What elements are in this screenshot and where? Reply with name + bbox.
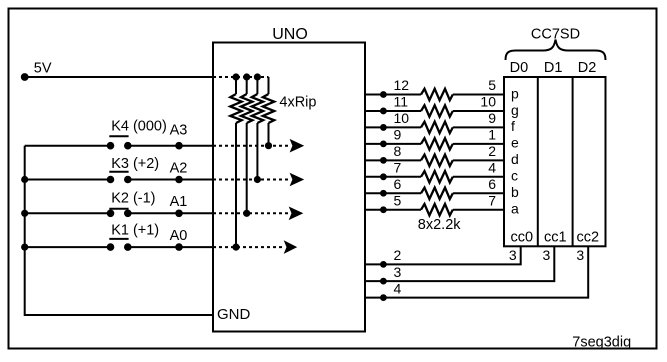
- svg-text:e: e: [511, 135, 519, 151]
- resistor R3 2.2k: [421, 122, 453, 133]
- wire UNO pin 12 to resistor R1: [365, 94, 421, 96]
- svg-text:GND: GND: [217, 306, 251, 323]
- display DS1 CC7SD block: [504, 77, 606, 246]
- wire A0 into UNO (dashed): [213, 246, 285, 248]
- svg-text:d: d: [511, 151, 519, 167]
- svg-text:D0: D0: [510, 60, 529, 76]
- node A0: [170, 228, 188, 251]
- svg-text:9: 9: [394, 127, 402, 143]
- svg-text:9: 9: [488, 110, 496, 126]
- resistor RN4 (pull-up): [263, 77, 274, 146]
- wire resistor R4 to display pin 1: [453, 143, 504, 145]
- wire UNO pin 8 to resistor R5: [365, 159, 421, 161]
- svg-text:K3 (+2): K3 (+2): [111, 156, 159, 172]
- svg-text:6: 6: [488, 176, 496, 192]
- wire switch K2 to node A1: [128, 212, 213, 214]
- resistor R2 2.2k: [421, 105, 453, 116]
- node 5V terminal: [21, 73, 29, 81]
- resistor R7 2.2k: [421, 188, 453, 199]
- svg-text:b: b: [511, 184, 519, 200]
- wire resistor R8 to display pin 7: [453, 209, 504, 211]
- wire UNO pin 5 to resistor R8: [365, 209, 421, 211]
- arrow A1 internal: [289, 207, 304, 221]
- svg-text:K2 (-1): K2 (-1): [111, 191, 155, 207]
- wire UNO pin 7 to resistor R6: [365, 176, 421, 178]
- svg-text:4xRip: 4xRip: [279, 95, 316, 111]
- resistor RN2 (pull-up): [241, 73, 252, 213]
- arrow A3 internal: [290, 139, 305, 153]
- node pin 9 junction: [380, 140, 387, 147]
- svg-text:11: 11: [394, 94, 409, 110]
- switch K4 (000): [107, 118, 167, 149]
- svg-text:K1 (+1): K1 (+1): [111, 223, 159, 239]
- wire resistor R7 to display pin 6: [453, 192, 504, 194]
- wire A3 into UNO (dashed): [213, 145, 291, 147]
- node bus junction row A0: [21, 244, 28, 251]
- arrow A2 internal: [290, 173, 305, 187]
- svg-text:7seg3dig: 7seg3dig: [572, 334, 631, 350]
- svg-text:4: 4: [394, 280, 402, 296]
- wire bus to switch K3: [25, 179, 111, 181]
- svg-text:cc0: cc0: [511, 229, 534, 245]
- node A1: [170, 194, 188, 217]
- svg-text:1: 1: [488, 127, 496, 143]
- wire 5V dashed inside UNO: [213, 76, 269, 78]
- svg-text:g: g: [511, 102, 519, 118]
- IC U1 UNO block: [213, 26, 365, 332]
- svg-text:8: 8: [394, 143, 402, 159]
- node bus junction row A2: [21, 176, 28, 183]
- brace over display: [506, 40, 606, 61]
- switch K1 (+1): [107, 223, 159, 251]
- svg-text:10: 10: [394, 110, 410, 126]
- node RN1 to row junction: [232, 244, 239, 251]
- wire switch K1 to node A0: [128, 246, 213, 248]
- svg-text:2: 2: [488, 143, 496, 159]
- wire UNO pin 11 to resistor R2: [365, 110, 421, 112]
- svg-text:2: 2: [394, 247, 402, 263]
- svg-text:3: 3: [576, 247, 584, 263]
- svg-text:UNO: UNO: [272, 26, 308, 43]
- svg-text:7: 7: [394, 160, 402, 176]
- node RN2 to row junction: [243, 210, 250, 217]
- svg-text:5V: 5V: [34, 61, 52, 77]
- node pin 3 junction: [380, 278, 387, 285]
- node pin 8 junction: [380, 157, 387, 164]
- svg-text:p: p: [511, 85, 519, 101]
- wire bus to switch K1: [25, 246, 111, 248]
- svg-text:8x2.2k: 8x2.2k: [418, 217, 461, 233]
- node pin 2 junction: [380, 261, 387, 268]
- node pin 7 junction: [380, 173, 387, 180]
- svg-text:cc2: cc2: [577, 229, 600, 245]
- wire resistor R2 to display pin 10: [453, 110, 504, 112]
- resistor R5 2.2k: [421, 155, 453, 166]
- svg-text:4: 4: [488, 160, 496, 176]
- wire GND bus: left vertical + bottom horizontal: [25, 146, 213, 315]
- node pin 4 junction: [380, 294, 387, 301]
- resistor R6 2.2k: [421, 171, 453, 182]
- wire 5V to UNO: [25, 76, 213, 78]
- switch K2 (-1): [107, 191, 156, 218]
- svg-text:a: a: [511, 201, 519, 217]
- wire resistor R6 to display pin 4: [453, 176, 504, 178]
- wire switch K3 to node A2: [128, 179, 213, 181]
- resistor RN3 (pull-up): [252, 73, 263, 179]
- svg-text:K4 (000): K4 (000): [111, 118, 167, 134]
- node bus junction row A1: [21, 210, 28, 217]
- node A2: [170, 161, 188, 184]
- wire UNO pin 6 to resistor R7: [365, 192, 421, 194]
- svg-text:10: 10: [480, 94, 496, 110]
- node RN4 to row junction: [265, 142, 272, 149]
- svg-text:f: f: [511, 118, 515, 134]
- svg-text:A2: A2: [170, 161, 188, 177]
- wire resistor R1 to display pin 5: [453, 94, 504, 96]
- node RN3 to row junction: [254, 176, 261, 183]
- svg-text:c: c: [511, 168, 518, 184]
- svg-text:3: 3: [394, 264, 402, 280]
- node pin 6 junction: [380, 190, 387, 197]
- wire bus to switch K4: [25, 145, 111, 147]
- svg-text:A0: A0: [170, 228, 188, 244]
- svg-text:3: 3: [543, 247, 551, 263]
- wire bus to switch K2: [25, 212, 111, 214]
- wire A2 into UNO (dashed): [213, 179, 291, 181]
- node pin 11 junction: [380, 108, 387, 115]
- wire A1 into UNO (dashed): [213, 212, 290, 214]
- svg-text:A3: A3: [170, 123, 188, 139]
- switch K3 (+2): [107, 156, 159, 183]
- wire UNO pin 2 to cc0: [365, 246, 521, 264]
- svg-text:6: 6: [394, 176, 402, 192]
- svg-text:12: 12: [394, 77, 410, 93]
- resistor RN1 (pull-up): [230, 73, 241, 247]
- svg-text:D2: D2: [578, 60, 597, 76]
- svg-text:5: 5: [394, 192, 402, 208]
- wire resistor R5 to display pin 2: [453, 159, 504, 161]
- node pin 12 junction: [380, 91, 387, 98]
- node pin 5 junction: [380, 206, 387, 213]
- arrow A0 internal: [284, 240, 298, 254]
- svg-text:D1: D1: [544, 60, 563, 76]
- wire switch K4 to node A3: [128, 145, 213, 147]
- resistor R1 2.2k: [421, 89, 453, 100]
- wire resistor R3 to display pin 9: [453, 126, 504, 128]
- svg-text:3: 3: [509, 247, 517, 263]
- wire UNO pin 3 to cc1: [365, 246, 554, 281]
- node A3: [170, 123, 188, 150]
- wire UNO pin 9 to resistor R4: [365, 143, 421, 145]
- resistor R8 2.2k: [421, 204, 453, 215]
- svg-text:7: 7: [488, 192, 496, 208]
- resistor R4 2.2k: [421, 138, 453, 149]
- svg-text:5: 5: [488, 77, 496, 93]
- svg-text:A1: A1: [170, 194, 188, 210]
- wire UNO pin 10 to resistor R3: [365, 126, 421, 128]
- node pin 10 junction: [380, 124, 387, 131]
- wire UNO pin 4 to cc2: [365, 246, 588, 297]
- svg-text:cc1: cc1: [544, 229, 567, 245]
